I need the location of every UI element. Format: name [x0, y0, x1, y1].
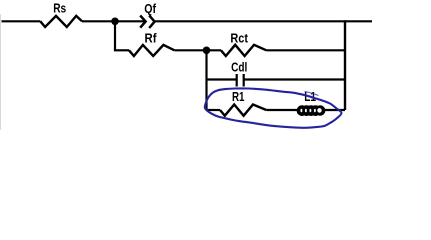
- wire: [207, 109, 221, 111]
- wire: [82, 20, 146, 22]
- wire: [2, 20, 41, 22]
- wire: [114, 21, 116, 50]
- resistor Rf: [129, 45, 174, 56]
- wire: [344, 20, 346, 110]
- wire: [154, 20, 372, 22]
- junction dot: [203, 47, 211, 55]
- left image edge shading: [0, 14, 2, 130]
- svg-text:Cdl: Cdl: [231, 61, 247, 75]
- svg-text:Rct: Rct: [230, 32, 248, 46]
- junction dot: [111, 18, 119, 26]
- wire: [266, 109, 298, 111]
- CPE Qf: [140, 15, 154, 28]
- wire: [114, 49, 129, 51]
- svg-text:Rf: Rf: [145, 32, 158, 46]
- resistor Rs: [40, 16, 82, 27]
- wire: [266, 49, 345, 51]
- resistor R1: [220, 105, 266, 116]
- wire: [175, 49, 222, 51]
- highlight ellipse pen overlap: [305, 92, 319, 96]
- svg-text:Rs: Rs: [53, 2, 66, 16]
- wire: [207, 78, 237, 80]
- capacitor Cdl: [237, 74, 244, 87]
- wire: [205, 50, 207, 110]
- resistor Rct: [221, 45, 266, 56]
- wire: [325, 109, 345, 111]
- wire: [244, 78, 345, 80]
- highlight ellipse: [205, 88, 342, 127]
- svg-text:Qf: Qf: [144, 2, 156, 16]
- svg-text:R1: R1: [232, 90, 245, 104]
- inductor L1: [297, 105, 326, 116]
